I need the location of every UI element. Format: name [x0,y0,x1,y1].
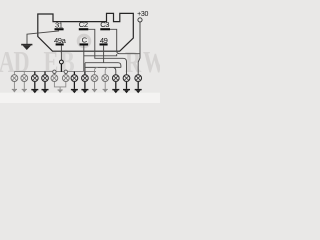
svg-text:C2: C2 [79,20,88,29]
svg-text:49: 49 [100,36,108,45]
svg-text:W: W [143,44,160,78]
svg-text:R: R [125,44,142,78]
svg-text:49a: 49a [54,36,67,45]
svg-text:C3: C3 [100,20,109,29]
svg-text:+30: +30 [137,11,148,18]
svg-text:31: 31 [55,20,63,29]
